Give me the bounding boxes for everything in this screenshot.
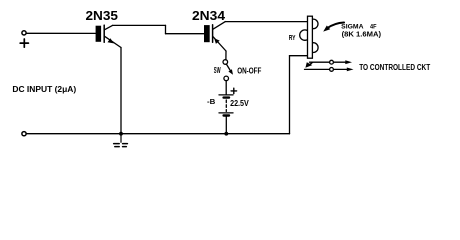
arrow Q2 emitter (PNP, points toward base): [214, 38, 220, 44]
transistor Q1 2N35 base bar: [96, 26, 102, 42]
switch SW blade: [226, 64, 230, 71]
relay contact fixed line: [305, 68, 347, 70]
battery cells omitted dashed: [225, 100, 227, 112]
wire Q2 emitter to switch: [225, 51, 227, 60]
svg-text:22.5V: 22.5V: [230, 99, 249, 108]
wire input top: [26, 32, 95, 34]
node contact terminal top: [330, 60, 334, 64]
node contact terminal bottom: [330, 68, 334, 72]
transistor Q1 2N35 emitter-collector plate: [103, 25, 105, 42]
switch SW bottom contact: [224, 76, 229, 81]
wire interstage horizontal lower to Q2 base: [166, 33, 205, 35]
svg-text:DC INPUT (2μA): DC INPUT (2μA): [12, 85, 76, 94]
relay RY coil winding bottom loop: [308, 43, 318, 53]
ground: [114, 134, 128, 147]
wire Q1 collector: [104, 25, 112, 29]
battery B plus plate bottom: [219, 112, 233, 114]
battery B plus plate top: [219, 94, 233, 96]
battery B minus plate bottom: [224, 114, 229, 116]
wire relay coil bottom: [290, 55, 308, 57]
transistor Q2 2N34 emitter-collector plate: [212, 25, 214, 43]
wire bottom rail: [26, 133, 289, 135]
wire Q1 emitter vertical to ground rail: [120, 48, 122, 134]
arrow contact out bottom: [347, 68, 354, 72]
wire Q2 emitter diagonal: [213, 36, 226, 51]
wire relay coil drop to rail: [289, 56, 291, 134]
wire Q1 emitter diagonal: [104, 36, 121, 47]
svg-text:4F: 4F: [370, 24, 377, 31]
switch SW top contact: [223, 60, 228, 65]
arrow armature: [305, 62, 312, 68]
label + input polarity: [20, 39, 28, 47]
arrow switch blade tip: [228, 69, 233, 75]
node input- terminal: [22, 132, 26, 136]
svg-text:TO CONTROLLED CKT: TO CONTROLLED CKT: [359, 62, 431, 72]
arrow contact out top: [345, 60, 352, 64]
node ground junction: [119, 132, 123, 136]
svg-text:SIGMA: SIGMA: [341, 24, 364, 31]
arrow Q1 emitter (NPN, points away): [108, 38, 114, 43]
label + battery polarity: [231, 88, 237, 93]
relay contact movable line: [310, 61, 346, 63]
svg-text:ON-OFF: ON-OFF: [237, 67, 261, 76]
svg-text:-B: -B: [207, 99, 215, 106]
wire top rail to relay coil: [225, 21, 307, 23]
svg-text:RY: RY: [289, 33, 296, 42]
svg-text:2N35: 2N35: [86, 9, 119, 23]
relay RY coil core: [308, 16, 313, 58]
svg-text:2N34: 2N34: [192, 9, 225, 23]
wire Q2 collector diagonal: [213, 22, 226, 30]
svg-text:(8K 1.6MA): (8K 1.6MA): [342, 32, 382, 39]
battery B minus plate top: [224, 96, 229, 98]
relay RY coil winding middle loop: [300, 30, 310, 40]
transistor Q2 2N34 base bar: [204, 25, 210, 42]
svg-text:SW: SW: [214, 65, 221, 75]
wire interstage vertical: [165, 25, 167, 33]
node battery-rail junction: [224, 132, 228, 136]
arrow pointer to relay: [327, 23, 344, 29]
relay RY coil winding top loop: [308, 19, 318, 29]
wire switch to battery: [225, 81, 227, 95]
node input+ terminal: [22, 31, 26, 35]
wire interstage horizontal upper: [113, 24, 166, 26]
wire battery to bottom rail: [225, 117, 227, 134]
